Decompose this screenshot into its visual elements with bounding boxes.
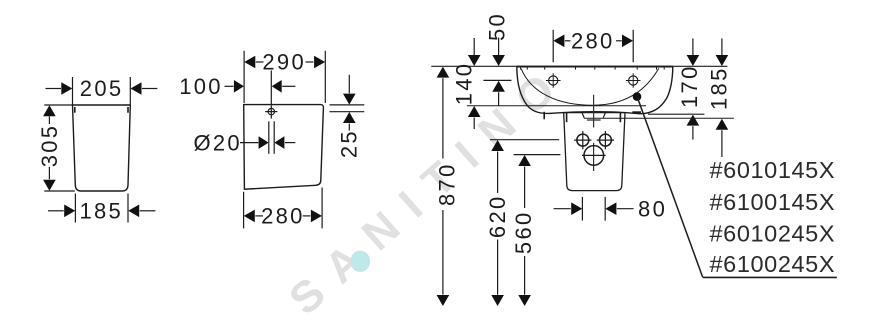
hole edge line left: [268, 121, 270, 154]
svg-text:Ø20: Ø20: [193, 131, 241, 156]
dim 870 line and arrows: [437, 67, 450, 78]
wall mount line: [467, 105, 646, 107]
pedestal hidden tick left: [566, 112, 568, 122]
dim 80 extension lines: [581, 197, 583, 221]
dim 185 arrows: [721, 38, 723, 55]
leader line: [638, 98, 703, 277]
pedestal top tick left: [74, 107, 76, 113]
dim 280 extension lines: [552, 30, 554, 63]
basin inner bowl arc: [521, 68, 659, 105]
svg-text:50: 50: [485, 12, 510, 41]
svg-text:#6100245X: #6100245X: [710, 251, 836, 277]
recess bottom level line (185): [584, 117, 734, 119]
basin bottom tick: [543, 112, 545, 120]
dim 560 extension line: [514, 154, 561, 156]
dim 205 extension lines: [72, 77, 74, 105]
leader dot: [633, 92, 642, 101]
dim 25 extension lines: [330, 104, 365, 106]
watermark SANITINO: [280, 53, 578, 324]
dim 305 arrows and line: [43, 105, 56, 116]
basin fixing hole left: [549, 76, 558, 85]
pedestal side-view outline: [73, 105, 131, 191]
pedestal hidden tick right: [619, 112, 621, 122]
drain cross tick: [587, 119, 601, 121]
basin front-view top edge: [517, 66, 673, 68]
basin front-view outer silhouette: [517, 67, 673, 114]
svg-text:620: 620: [485, 194, 510, 238]
svg-text:80: 80: [638, 196, 667, 221]
hole edge line right: [273, 121, 275, 154]
dim 100 arrows: [225, 85, 234, 87]
center line: [593, 95, 595, 171]
basin fixing hole right: [629, 76, 638, 85]
svg-text:#6100145X: #6100145X: [710, 189, 836, 215]
dim 170 arrows: [692, 38, 694, 55]
dim 50 arrows: [498, 38, 500, 56]
svg-text:170: 170: [677, 64, 702, 108]
wall reference line: [431, 65, 727, 67]
dim 290 extension lines: [243, 51, 245, 103]
basin bottom junction dash: [632, 111, 641, 113]
dim 80 arrows and label: [554, 208, 571, 210]
svg-text:290: 290: [262, 50, 306, 75]
dim 185 arrows and line: [48, 210, 64, 212]
svg-text:140: 140: [451, 62, 476, 106]
dim 140 arrows: [473, 38, 475, 55]
pedestal front-view outline: [564, 113, 625, 191]
hole plane extension line: [483, 79, 511, 81]
basin bottom level line (170): [648, 113, 704, 115]
svg-text:185: 185: [79, 198, 123, 223]
svg-text:205: 205: [80, 76, 124, 101]
dim 280 arrows and line: [244, 210, 255, 223]
dim 185 extension lines: [74, 194, 76, 223]
svg-text:560: 560: [511, 210, 536, 254]
dim 620 line and arrows: [491, 140, 504, 151]
svg-text:100: 100: [179, 74, 223, 99]
basin side-view outline: [244, 105, 324, 190]
dim 280 extension lines: [243, 192, 245, 229]
svg-text:#6010145X: #6010145X: [710, 157, 836, 183]
watermark teal droplet: [351, 251, 371, 272]
dim 280 arrows and label: [553, 35, 564, 48]
dim 305 extension lines: [44, 104, 72, 106]
pedestal drain hole: [584, 146, 604, 166]
svg-text:25: 25: [337, 129, 362, 158]
dim 560 line and arrows: [518, 155, 531, 166]
dim diameter 20 arrows: [240, 142, 258, 144]
basin top edge ticks: [521, 67, 665, 69]
svg-text:280: 280: [261, 203, 305, 228]
drain recess notch: [582, 113, 605, 118]
svg-text:280: 280: [571, 28, 615, 53]
svg-text:185: 185: [707, 66, 732, 110]
svg-text:305: 305: [37, 124, 62, 168]
dim 205 arrows and line: [46, 88, 62, 90]
dim 25 arrows: [348, 75, 350, 93]
pedestal fixing hole left: [577, 134, 589, 146]
dim 620 extension line: [490, 139, 559, 141]
codes underline: [703, 276, 837, 278]
pedestal fixing hole right: [599, 134, 611, 146]
svg-text:#6010245X: #6010245X: [710, 221, 836, 247]
svg-text:870: 870: [434, 162, 459, 206]
dim 290 arrows and line: [244, 56, 255, 69]
pedestal top tick right: [127, 107, 129, 113]
faucet hole centerline: [270, 71, 272, 105]
faucet hole symbol: [268, 108, 274, 114]
